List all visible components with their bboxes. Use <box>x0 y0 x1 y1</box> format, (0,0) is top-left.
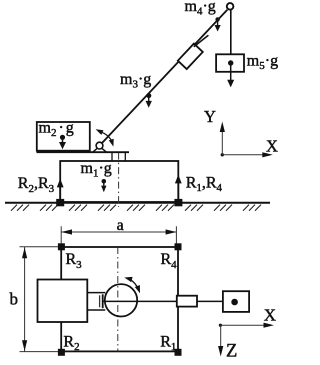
svg-text:X: X <box>264 305 276 324</box>
m1 mass dot <box>102 179 107 184</box>
hydraulic cylinder on boom <box>178 44 203 69</box>
bearing block on wall <box>177 296 197 307</box>
ground hatching <box>11 205 261 211</box>
motor box <box>38 280 88 323</box>
shaft line <box>103 300 223 302</box>
luffing arc double arrow <box>102 132 112 140</box>
platform (turntable) line <box>37 151 130 153</box>
reaction arrow R1,R4 <box>175 175 182 199</box>
m3 weight arrow <box>148 96 150 102</box>
dim a line with arrows <box>61 231 176 233</box>
boom (jib) line <box>102 10 228 144</box>
dim b line with arrows <box>24 247 26 352</box>
axes top: origin dot <box>221 153 224 156</box>
reaction arrow R2,R3 <box>57 179 64 199</box>
counterweight box m2 <box>37 122 90 151</box>
base body (truck frame) <box>60 161 178 202</box>
m4 weight arrow <box>217 19 219 25</box>
svg-text:X: X <box>266 137 278 156</box>
main frame rectangle <box>61 247 178 351</box>
ground <box>5 202 270 204</box>
pivot circle <box>96 142 103 149</box>
X axis bottom <box>220 324 264 326</box>
dim b extension lines <box>20 246 61 248</box>
axes bottom: origin dot <box>219 324 222 327</box>
support square right <box>174 199 182 206</box>
m3 mass dot <box>146 93 151 98</box>
m2 mass dot <box>60 135 65 140</box>
rotation arc double arrow <box>131 280 138 289</box>
support square left <box>56 199 64 206</box>
coupling neck top <box>87 292 105 294</box>
mount tick left <box>111 153 113 161</box>
m5 weight arrow <box>230 63 232 81</box>
mount tick right <box>124 153 126 161</box>
m2 weight arrow <box>62 137 64 143</box>
detached box with dot <box>223 291 249 312</box>
coupling bar 1 <box>99 295 101 307</box>
vertical centerline <box>117 247 119 351</box>
X axis <box>222 154 263 156</box>
coupling bar 2 <box>102 294 104 308</box>
dim a extension lines <box>60 226 62 246</box>
svg-text:Y: Y <box>204 107 216 126</box>
Z axis <box>220 325 222 347</box>
svg-text:Z: Z <box>226 342 237 362</box>
drum circle <box>105 284 137 316</box>
m5 mass dot <box>228 60 233 65</box>
load box m5 <box>216 54 244 72</box>
pivot legs <box>93 148 98 152</box>
corner squares <box>58 243 65 250</box>
svg-text:b: b <box>10 290 19 309</box>
cable <box>230 10 232 54</box>
svg-text:a: a <box>117 217 124 234</box>
centerline (dash-dot) of m1 <box>118 153 120 207</box>
m1 weight arrow <box>103 181 105 187</box>
coupling neck bottom <box>87 309 105 311</box>
pulley at boom tip <box>227 3 234 10</box>
Y axis <box>221 130 223 155</box>
cylinder rod <box>194 35 209 47</box>
m4 mass dot <box>215 17 219 21</box>
